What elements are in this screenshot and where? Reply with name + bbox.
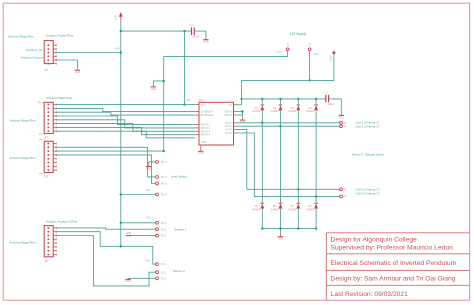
diode D3: [288, 105, 300, 113]
wire SEN to ground: [242, 112, 244, 119]
pin sensor1 1: [156, 221, 159, 224]
svg-text:P0.3: P0.3: [161, 235, 167, 238]
wire JP2 pin7 to INPUT4: [56, 127, 195, 134]
svg-text:P0.2: P0.2: [161, 228, 167, 231]
svg-text:Pin 4: Pin 4: [161, 193, 167, 197]
svg-text:VS: VS: [228, 103, 232, 107]
wire P3 down: [333, 54, 335, 80]
wire JP2 pin8: [56, 131, 195, 138]
svg-text:Arduino Mega Pins: Arduino Mega Pins: [10, 156, 37, 160]
wire JP2 pin5 to INPUT2: [56, 120, 195, 128]
wire sensor1 pin3 to ground: [129, 235, 156, 237]
svg-text:INPUT2: INPUT2: [201, 126, 211, 130]
svg-text:C2: C2: [325, 92, 329, 95]
pin sensor2 1: [156, 263, 159, 266]
wire +5V to VSS: [184, 31, 186, 105]
ground C2: [339, 114, 345, 120]
svg-text:P2: P2: [344, 126, 348, 128]
diode D4: [306, 105, 318, 113]
svg-text:1N4004: 1N4004: [270, 209, 279, 211]
wire diode D7 to gnd bus: [297, 209, 299, 229]
pin coil 2: [340, 125, 343, 128]
svg-text:1N4004: 1N4004: [252, 111, 261, 113]
svg-text:GND: GND: [201, 140, 207, 144]
svg-text:1N4004: 1N4004: [306, 209, 315, 211]
svg-text:D5: D5: [255, 206, 259, 208]
wire +12V rail: [242, 79, 334, 81]
svg-text:+5V: +5V: [146, 215, 151, 219]
svg-text:1N4004: 1N4004: [288, 209, 297, 211]
capacitor C1: [190, 24, 200, 38]
svg-text:Design for Algonquin College: Design for Algonquin College: [331, 237, 418, 244]
pin P1 +12V: [286, 48, 289, 51]
wire column 2 lower: [280, 126, 282, 203]
svg-text:D3: D3: [291, 108, 295, 110]
wire diode D8 to gnd bus: [315, 209, 317, 229]
svg-text:1N4004: 1N4004: [288, 111, 297, 113]
svg-text:Pin 2: Pin 2: [161, 175, 167, 179]
svg-text:12V: 12V: [288, 42, 290, 46]
svg-text:SEN B: SEN B: [224, 113, 232, 117]
svg-text:ENABLE B: ENABLE B: [201, 113, 214, 117]
svg-text:D4: D4: [309, 108, 313, 110]
supply +5V: [113, 12, 122, 21]
junction: [120, 30, 122, 32]
ground diode bus: [278, 235, 284, 241]
svg-text:1N4004: 1N4004: [270, 111, 279, 113]
svg-text:JP1: JP1: [44, 70, 49, 72]
diode D8: [306, 203, 318, 211]
svg-text:Design by: Sam Armour and Tri: Design by: Sam Armour and Tri Oai Giang: [331, 276, 456, 283]
wire diode column 3 to output: [297, 111, 299, 190]
svg-text:INPUT4: INPUT4: [201, 133, 211, 137]
junction: [261, 122, 263, 124]
wire JP3 pin3 to ground net: [56, 150, 164, 152]
pin sensor2 2: [156, 271, 159, 274]
wire JP4 pin3 to sensor2 pin2: [56, 236, 155, 286]
svg-text:+12V: +12V: [312, 52, 319, 56]
svg-text:Arduino PWM Pins: Arduino PWM Pins: [46, 96, 72, 100]
wire diode column 4 to output: [315, 111, 317, 197]
svg-text:D2: D2: [273, 108, 277, 110]
wire +5V to C1: [121, 30, 191, 32]
junction: [297, 98, 299, 100]
junction: [120, 245, 122, 247]
wire JP2 pin3 to ENABLE B: [56, 112, 195, 115]
diode D5: [252, 203, 264, 211]
svg-text:GND: GND: [125, 280, 131, 283]
svg-text:P4: P4: [344, 197, 348, 199]
wire JP3 pin4 to limit pin3: [56, 155, 155, 184]
svg-text:+5V: +5V: [185, 98, 190, 102]
junction: [120, 51, 122, 53]
wire sensor2 pin3 to ground: [128, 277, 156, 279]
svg-text:Last Revision: 09/03/2021: Last Revision: 09/03/2021: [331, 291, 409, 298]
wire P2 down: [309, 51, 311, 81]
wire SEN A: [236, 111, 242, 113]
svg-text:GND: GND: [278, 238, 284, 241]
svg-text:GND: GND: [203, 41, 209, 44]
wire +12V diode bus: [242, 98, 326, 100]
svg-text:Coil 2 of Nema 17: Coil 2 of Nema 17: [356, 124, 380, 128]
ground sensor 1: [126, 232, 132, 235]
wire JP3 pin2 to limit pin2: [56, 147, 155, 177]
wire JP2 pin1 to VSS: [56, 104, 195, 106]
junction: [279, 227, 281, 229]
wire +5V rail top: [120, 21, 122, 32]
wire ground net vertical: [163, 57, 165, 152]
capacitor C2: [325, 92, 335, 106]
svg-text:Arduino Mega Pins: Arduino Mega Pins: [10, 240, 37, 244]
svg-text:+12V: +12V: [329, 55, 333, 62]
svg-text:+5V: +5V: [145, 258, 150, 262]
wire SEN B: [236, 114, 242, 116]
junction: [297, 227, 299, 229]
wire C1 to ground: [195, 31, 206, 38]
ground C1: [203, 38, 209, 44]
ground limit switch: [146, 165, 152, 171]
wire ground symbol branch: [153, 81, 163, 85]
wire column 4 lower: [315, 196, 317, 203]
wire OUT3 to coil 3: [236, 130, 339, 190]
wire ground bus: [262, 228, 316, 230]
svg-text:1N4004: 1N4004: [306, 111, 315, 113]
svg-text:JP3: JP3: [44, 176, 49, 178]
svg-text:P1.1: P1.1: [161, 263, 167, 266]
svg-text:Supervised by: Professor Mauri: Supervised by: Professor Mauricio Ledon: [331, 244, 454, 251]
svg-text:P1.3: P1.3: [161, 277, 167, 280]
junction: [308, 79, 310, 81]
svg-text:Arduino Power Pins: Arduino Power Pins: [46, 33, 74, 37]
svg-text:Electrical Schematic of Invert: Electrical Schematic of Inverted Pendulu…: [331, 260, 457, 267]
svg-text:+12V: +12V: [275, 49, 282, 53]
pin limit 3: [156, 182, 159, 185]
svg-text:GND: GND: [126, 232, 132, 235]
pin limit 1: [156, 161, 159, 164]
junction: [315, 98, 317, 100]
svg-text:Pin 7: Pin 7: [39, 137, 45, 141]
junction: [163, 80, 165, 82]
wire diode D6 to gnd bus: [280, 209, 282, 229]
junction: [120, 222, 122, 224]
svg-text:OUT3: OUT3: [225, 128, 232, 132]
svg-text:INPUT1: INPUT1: [201, 122, 211, 126]
connector JP1 Arduino Power Pins: [44, 41, 56, 72]
wire Arduino +5v: [56, 52, 121, 54]
junction: [261, 98, 263, 100]
title block: [326, 233, 469, 300]
svg-text:VSS: VSS: [201, 103, 206, 107]
svg-text:Sensor 1: Sensor 1: [174, 227, 186, 231]
wire OUT1 to coil 1: [236, 122, 339, 124]
wire OUT4 to coil 4: [236, 133, 339, 196]
svg-text:P3: P3: [344, 189, 348, 191]
svg-text:OUT4: OUT4: [225, 131, 232, 135]
connector JP3 Arduino Mega Pins: [44, 141, 56, 178]
pin coil 3: [340, 188, 343, 191]
junction: [120, 193, 122, 195]
wire JP2 pin2 to ENABLE A: [56, 108, 195, 111]
op-amp IC1 motor driver: [195, 98, 236, 149]
junction: [183, 103, 185, 105]
junction: [261, 227, 263, 229]
svg-text:12V Supply: 12V Supply: [290, 32, 307, 36]
svg-text:Arduino Analog In Pins: Arduino Analog In Pins: [46, 219, 78, 223]
diode D2: [270, 105, 282, 113]
wire limit pin1 to ground: [149, 162, 156, 165]
svg-text:D1: D1: [255, 108, 259, 110]
diode D7: [288, 203, 300, 211]
wire gnd bus stub: [280, 229, 282, 235]
svg-text:Arduino +5v: Arduino +5v: [26, 48, 43, 52]
svg-text:P0.1: P0.1: [161, 222, 167, 225]
svg-text:Pin 5: Pin 5: [39, 171, 45, 175]
junction: [183, 30, 185, 32]
wire diode column 3 upper: [297, 99, 299, 105]
svg-text:OUT1: OUT1: [225, 121, 232, 125]
pin coil 4: [340, 195, 343, 198]
junction: [315, 227, 317, 229]
ground JP1: [75, 68, 81, 74]
wire JP4 pin1 to sensor1 pin2: [56, 228, 155, 229]
svg-text:100uF: 100uF: [327, 103, 335, 106]
svg-text:Limit Switch: Limit Switch: [171, 175, 187, 179]
svg-text:GND: GND: [198, 152, 204, 155]
svg-text:D7: D7: [291, 206, 295, 208]
diode D6: [270, 203, 282, 211]
svg-text:Nema 17 Stepper Motor: Nema 17 Stepper Motor: [352, 153, 384, 157]
pin P3 +12V: [332, 51, 335, 54]
junction: [279, 98, 281, 100]
svg-text:Pin 10: Pin 10: [38, 100, 46, 104]
diode D1: [252, 105, 264, 113]
svg-text:GND: GND: [151, 88, 157, 91]
wire JP2 pin4 to INPUT1: [56, 116, 195, 124]
wire +12V to VS: [241, 80, 243, 104]
svg-text:OUT2: OUT2: [225, 124, 232, 128]
svg-text:INPUT3: INPUT3: [201, 129, 211, 133]
wire diode column 2 upper: [280, 99, 282, 105]
wire JP2 pin6 to INPUT3: [56, 124, 195, 132]
wire diode column 2 to output: [280, 111, 282, 127]
junction: [297, 188, 299, 190]
wire column 3 lower: [297, 189, 299, 203]
svg-text:Sensor 2: Sensor 2: [173, 269, 185, 273]
svg-text:12V: 12V: [310, 42, 312, 46]
svg-text:Pin 3: Pin 3: [161, 182, 167, 186]
svg-text:D8: D8: [309, 206, 313, 208]
junction: [315, 195, 317, 197]
wire diode D5 to gnd bus: [261, 209, 263, 229]
svg-text:Arduino Mega Pins: Arduino Mega Pins: [8, 35, 35, 39]
pin sensor2 3: [156, 277, 159, 280]
pin sensor1 2: [156, 228, 159, 231]
wire diode column 1 to output: [261, 111, 263, 123]
svg-text:JP4: JP4: [44, 261, 49, 263]
wire diode column 4 upper: [315, 99, 317, 105]
junction: [163, 150, 165, 152]
svg-text:Coil 4 of Nema 17: Coil 4 of Nema 17: [356, 192, 380, 196]
wire +5V to limit pin4: [121, 194, 156, 196]
junction: [241, 110, 243, 112]
svg-text:+5V: +5V: [146, 188, 151, 192]
svg-text:GND: GND: [146, 167, 152, 170]
ground sensor 2: [125, 278, 131, 283]
svg-text:Arduino Ground: Arduino Ground: [21, 55, 43, 59]
svg-text:SEN A: SEN A: [224, 110, 232, 114]
wire Arduino ground: [56, 60, 77, 68]
wire C2 to ground: [329, 99, 341, 114]
svg-text:C1: C1: [190, 24, 194, 27]
ground IC1: [198, 149, 204, 155]
svg-text:GND: GND: [75, 71, 81, 74]
svg-text:P1: P1: [344, 123, 348, 125]
connector JP2 Arduino PWM Pins: [44, 102, 56, 139]
junction: [240, 98, 242, 100]
svg-text:P1.2: P1.2: [161, 271, 167, 274]
svg-text:+5V: +5V: [113, 15, 117, 20]
connector JP4 Arduino Analog In Pins: [44, 226, 56, 263]
pin P2 +12V: [308, 48, 311, 51]
wire diode column 1 upper: [261, 99, 263, 105]
svg-text:Pin 1: Pin 1: [161, 160, 167, 164]
wire OUT2 to coil 2: [236, 125, 339, 127]
junction: [279, 125, 281, 127]
svg-text:Pin 9: Pin 9: [39, 132, 45, 136]
ground SEN: [240, 118, 246, 124]
svg-text:IC1: IC1: [199, 98, 204, 102]
pin coil 1: [340, 121, 343, 124]
svg-text:100nF: 100nF: [192, 36, 200, 39]
svg-text:1N4004: 1N4004: [252, 209, 261, 211]
wire +5V rail to sensor1 pin1: [121, 222, 156, 224]
pin limit 2: [156, 176, 159, 179]
svg-text:GND: GND: [339, 116, 345, 119]
wire P1 to ground net: [164, 51, 288, 57]
svg-text:Arduino Mega Pins: Arduino Mega Pins: [10, 118, 37, 122]
wire column 1 lower: [261, 123, 263, 203]
wire JP4 pin2 to sensor2 pin1: [56, 232, 155, 264]
ground 12V supply: [151, 85, 157, 91]
svg-text:D6: D6: [273, 206, 277, 208]
wire +5V rail: [120, 31, 122, 246]
pin sensor1 3: [156, 234, 159, 237]
pin limit 4: [156, 193, 159, 196]
wire VS stub: [236, 104, 242, 106]
svg-text:+5V: +5V: [115, 47, 120, 51]
svg-text:ENABLE A: ENABLE A: [201, 110, 214, 114]
